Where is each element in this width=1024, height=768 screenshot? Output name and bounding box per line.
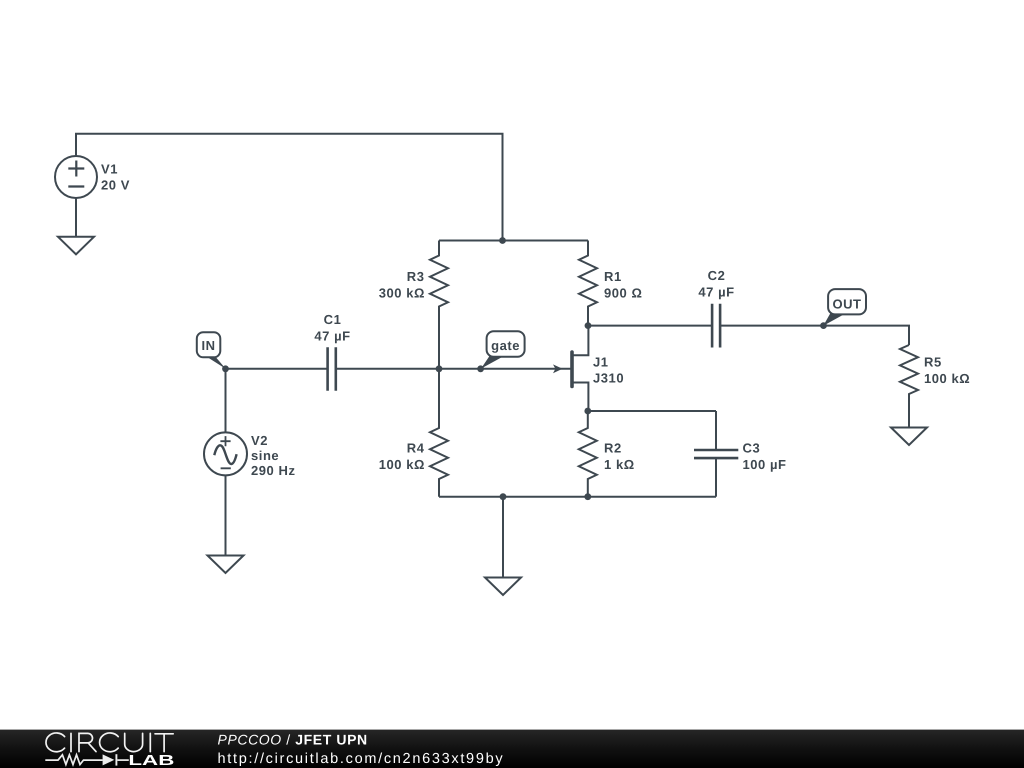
CircuitLab logo CIRCUIT bbox=[46, 733, 173, 752]
voltage source V1 bbox=[55, 156, 97, 198]
ground (V2) bbox=[208, 556, 244, 574]
svg-text:100 µF: 100 µF bbox=[743, 457, 787, 472]
label R5 100 kOhm bbox=[924, 354, 970, 386]
wire: gate wire into JFET bbox=[439, 368, 571, 370]
wire: source node to C3 bbox=[588, 410, 716, 412]
svg-text:290 Hz: 290 Hz bbox=[251, 463, 296, 478]
svg-text:R2: R2 bbox=[604, 440, 622, 455]
svg-text:LAB: LAB bbox=[128, 753, 174, 768]
wire: drain node to C2 bbox=[588, 325, 712, 327]
label J1 J310 bbox=[593, 354, 624, 385]
svg-text:sine: sine bbox=[251, 448, 279, 463]
svg-text:V1: V1 bbox=[101, 162, 118, 177]
svg-text:R4: R4 bbox=[407, 440, 425, 455]
wire: C2 to R5 corner bbox=[720, 326, 909, 345]
resistor R2 bbox=[579, 411, 597, 497]
wire: C1 to gate junction bbox=[336, 368, 439, 370]
wire: IN node to C1 bbox=[226, 368, 328, 370]
ground (R5) bbox=[891, 428, 927, 446]
svg-text:R3: R3 bbox=[407, 269, 425, 284]
node junction ground tap bbox=[500, 493, 507, 500]
flag gate bbox=[481, 331, 525, 368]
svg-text:R5: R5 bbox=[924, 354, 942, 369]
resistor R4 bbox=[430, 369, 448, 497]
transistor J1 drain lead bbox=[572, 326, 588, 356]
label V1 bbox=[101, 162, 130, 193]
label C2 47 uF bbox=[698, 268, 734, 300]
svg-text:http://circuitlab.com/cn2n633x: http://circuitlab.com/cn2n633xt99by bbox=[218, 751, 505, 767]
flag OUT bbox=[823, 289, 866, 326]
svg-text:100 kΩ: 100 kΩ bbox=[924, 371, 970, 386]
svg-text:C2: C2 bbox=[708, 268, 726, 283]
label R1 900 Ohm bbox=[604, 269, 642, 301]
node junction gate flag bbox=[477, 365, 484, 372]
wire: ground stem center bbox=[502, 497, 504, 578]
label C1 47 uF bbox=[314, 312, 350, 344]
voltage source V2 bbox=[204, 432, 247, 475]
svg-text:J310: J310 bbox=[593, 371, 624, 386]
svg-text:J1: J1 bbox=[593, 354, 609, 369]
wire: IN node down to V2 bbox=[225, 369, 227, 433]
node junction C1/R3/R4 bbox=[436, 365, 443, 372]
flag IN bbox=[197, 332, 226, 369]
transistor J1 gate arrow bbox=[553, 364, 563, 373]
wire: V1 top to top rail bbox=[76, 134, 503, 241]
node junction R2 bottom bbox=[584, 493, 591, 500]
label R3 300 kOhm bbox=[379, 269, 425, 301]
svg-text:V2: V2 bbox=[251, 433, 268, 448]
svg-text:300 kΩ: 300 kΩ bbox=[379, 286, 425, 301]
label R4 100 kOhm bbox=[379, 440, 425, 472]
wire: bottom rail bbox=[439, 496, 716, 498]
resistor R5 bbox=[900, 345, 918, 428]
footer bar bbox=[0, 730, 1024, 768]
node junction at top rail bbox=[499, 237, 506, 244]
CircuitLab logo resistor-diode glyph bbox=[45, 754, 129, 765]
node junction source/R2/C3 bbox=[584, 408, 591, 415]
label V2 sine 290 Hz bbox=[251, 433, 296, 478]
label R2 1 kOhm bbox=[604, 440, 635, 472]
svg-text:OUT: OUT bbox=[832, 296, 861, 311]
capacitor C2 bbox=[712, 304, 720, 348]
svg-text:PPCCOO / JFET UPN: PPCCOO / JFET UPN bbox=[218, 731, 368, 747]
wire: V2 bottom to ground bbox=[225, 475, 227, 555]
capacitor C1 bbox=[328, 347, 336, 390]
svg-text:C1: C1 bbox=[324, 312, 342, 327]
wire: rail R3 top to R1 top bbox=[439, 240, 588, 242]
svg-text:IN: IN bbox=[201, 338, 215, 353]
resistor R3 bbox=[430, 241, 448, 369]
svg-text:1 kΩ: 1 kΩ bbox=[604, 457, 635, 472]
node junction IN / V2 bbox=[222, 365, 229, 372]
svg-text:R1: R1 bbox=[604, 269, 622, 284]
label C3 100 uF bbox=[743, 441, 787, 473]
svg-text:20 V: 20 V bbox=[101, 178, 130, 193]
transistor J1 channel bar bbox=[570, 352, 574, 387]
ground (V1) bbox=[58, 237, 94, 255]
svg-text:47 µF: 47 µF bbox=[314, 329, 350, 344]
svg-text:gate: gate bbox=[491, 338, 520, 353]
svg-text:47 µF: 47 µF bbox=[698, 285, 734, 300]
capacitor C3 bbox=[694, 411, 738, 497]
svg-text:100 kΩ: 100 kΩ bbox=[379, 457, 425, 472]
svg-text:900 Ω: 900 Ω bbox=[604, 286, 642, 301]
resistor R1 bbox=[579, 241, 597, 326]
transistor J1 source lead bbox=[572, 383, 588, 412]
node junction R1 bottom / drain bbox=[585, 322, 592, 329]
wire: V1 bottom to ground bbox=[75, 198, 77, 237]
node junction OUT bbox=[820, 322, 827, 329]
ground (center) bbox=[485, 578, 521, 596]
svg-text:C3: C3 bbox=[743, 441, 761, 456]
